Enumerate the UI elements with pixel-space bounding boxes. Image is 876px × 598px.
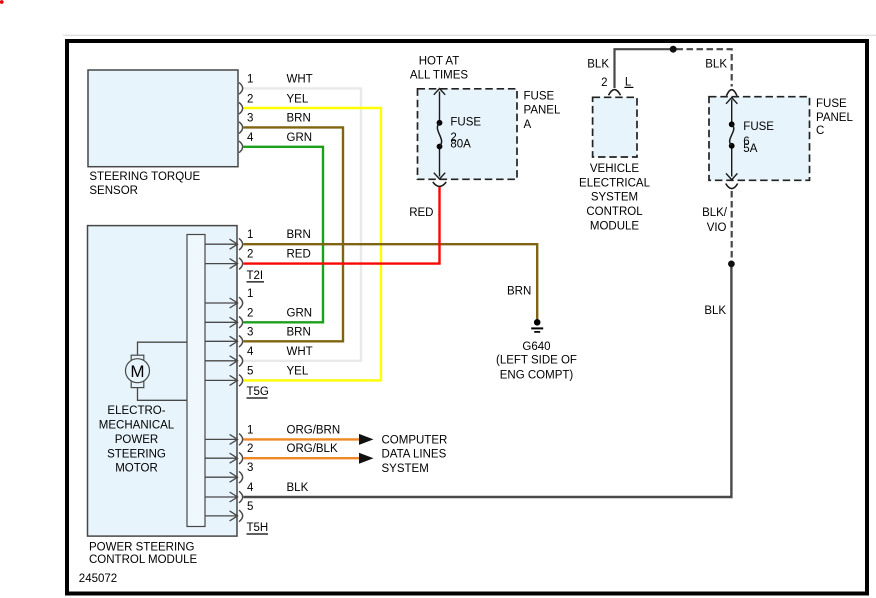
module pin 1 (nc) connector + arrow: [205, 288, 253, 309]
module pin 4 (BLK) connector + arrow: [205, 482, 309, 503]
svg-text:PANEL: PANEL: [816, 112, 853, 124]
fuse panel C top connector: [726, 90, 737, 96]
sensor pin 2 (YEL) connector: [239, 93, 309, 114]
svg-text:STEERING: STEERING: [107, 448, 166, 460]
svg-text:FUSE: FUSE: [450, 116, 481, 128]
data line arrow 2: [359, 453, 374, 464]
module pin 1 (ORG/BRN) connector + arrow: [205, 424, 340, 445]
module pin 2 (RED) connector + arrow: [205, 249, 311, 270]
computer data lines system label: [382, 435, 448, 475]
svg-text:RED: RED: [287, 249, 311, 261]
svg-text:MECHANICAL: MECHANICAL: [99, 420, 175, 432]
junction splice dot: [670, 46, 677, 53]
svg-text:(LEFT SIDE OF: (LEFT SIDE OF: [496, 354, 577, 366]
svg-text:3: 3: [247, 326, 253, 338]
module pin 3 (nc) connector + arrow: [205, 462, 253, 483]
svg-text:4: 4: [247, 482, 254, 494]
svg-text:1: 1: [247, 229, 253, 241]
module pin 2 (ORG/BLK) connector + arrow: [205, 443, 338, 464]
wire YEL sensor pin2 to module T5G pin5: [244, 108, 382, 380]
svg-text:HOT AT: HOT AT: [419, 56, 459, 68]
svg-text:WHT: WHT: [287, 73, 313, 85]
svg-text:MODULE: MODULE: [590, 220, 640, 232]
svg-text:BRN: BRN: [287, 113, 311, 125]
fuse 2 80A symbol: [434, 89, 482, 180]
svg-text:T5G: T5G: [247, 386, 269, 398]
connector label T5H: [247, 522, 269, 534]
power steering control module box: [88, 226, 238, 566]
fuse panel A bottom connector: [433, 182, 446, 186]
svg-text:YEL: YEL: [287, 93, 309, 105]
vehicle module pin L: [624, 77, 633, 89]
svg-text:5: 5: [247, 365, 253, 377]
svg-text:2: 2: [247, 443, 253, 455]
module pin 4 (WHT) connector + arrow: [205, 346, 313, 367]
svg-text:CONTROL MODULE: CONTROL MODULE: [89, 554, 198, 566]
svg-text:STEERING TORQUE: STEERING TORQUE: [89, 171, 200, 183]
svg-text:A: A: [524, 119, 532, 131]
svg-text:4: 4: [247, 346, 254, 358]
fuse 6 5A symbol: [726, 98, 774, 180]
svg-text:2: 2: [247, 249, 253, 261]
wire BLK vehicle module to junction: [615, 49, 673, 88]
svg-text:T5H: T5H: [247, 522, 269, 534]
svg-text:G640: G640: [522, 341, 550, 353]
svg-text:ELECTRO-: ELECTRO-: [107, 405, 165, 417]
wire BRN sensor pin3 to module T5G pin3: [244, 127, 344, 341]
fuse panel C box: [709, 97, 810, 181]
svg-text:245072: 245072: [79, 573, 117, 585]
svg-text:BLK: BLK: [587, 59, 609, 71]
svg-text:ALL TIMES: ALL TIMES: [410, 70, 468, 82]
svg-text:BRN: BRN: [287, 326, 311, 338]
wire WHT sensor pin1 to module T5G pin4: [244, 88, 362, 360]
svg-text:BLK: BLK: [704, 305, 726, 317]
red corner mark: [0, 0, 4, 4]
svg-text:CONTROL: CONTROL: [586, 206, 643, 218]
fuse panel A box: [418, 89, 518, 180]
sensor pin 3 (BRN) connector: [239, 113, 311, 134]
BLK/VIO wire label: [702, 207, 728, 234]
svg-text:M: M: [130, 362, 144, 381]
svg-text:PANEL: PANEL: [524, 105, 561, 117]
svg-text:FUSE: FUSE: [524, 90, 555, 102]
svg-text:FUSE: FUSE: [816, 98, 847, 110]
svg-text:COMPUTER: COMPUTER: [382, 435, 448, 447]
svg-text:2: 2: [247, 93, 253, 105]
module pin 1 (BRN) connector + arrow: [205, 229, 311, 250]
svg-text:VIO: VIO: [707, 222, 727, 234]
steering torque sensor: [88, 70, 238, 197]
svg-text:BRN: BRN: [287, 229, 311, 241]
svg-text:5: 5: [247, 501, 253, 513]
svg-text:YEL: YEL: [287, 365, 309, 377]
sensor pin 4 (GRN) connector: [239, 132, 312, 153]
svg-text:ORG/BLK: ORG/BLK: [287, 443, 338, 455]
electro-mechanical power steering motor M: [126, 342, 188, 400]
svg-text:2: 2: [601, 77, 607, 89]
svg-text:T2I: T2I: [247, 270, 264, 282]
svg-text:ENG COMPT): ENG COMPT): [500, 369, 574, 381]
module pin 2 (GRN) connector + arrow: [205, 307, 312, 328]
svg-text:SENSOR: SENSOR: [89, 185, 138, 197]
svg-text:GRN: GRN: [287, 307, 313, 319]
svg-text:BLK: BLK: [705, 59, 727, 71]
svg-text:FUSE: FUSE: [743, 121, 774, 133]
ground G640: [496, 319, 577, 381]
svg-text:SYSTEM: SYSTEM: [591, 192, 638, 204]
sensor pin 1 (WHT) connector: [239, 73, 313, 94]
svg-text:DATA LINES: DATA LINES: [382, 449, 447, 461]
wire RED fuse panel A to module T2I pin2: [244, 187, 440, 264]
svg-text:80A: 80A: [450, 139, 471, 151]
svg-text:BRN: BRN: [507, 285, 531, 297]
wire ORG/BLK module T5H pin2 to data lines: [244, 457, 360, 459]
svg-text:5A: 5A: [743, 143, 757, 155]
splice dot below fuse panel C: [728, 261, 735, 268]
fuse panel C bottom connector: [726, 184, 738, 189]
module internal connector bar: [187, 235, 205, 527]
svg-text:4: 4: [247, 132, 254, 144]
dashed BLK wire junction to fuse panel C: [677, 49, 732, 86]
svg-text:WHT: WHT: [287, 346, 313, 358]
svg-text:BLK: BLK: [287, 482, 309, 494]
fuse panel C label: [816, 98, 853, 137]
wire BLK module T5H pin4 to splice below fuse panel C: [244, 266, 732, 497]
svg-text:GRN: GRN: [287, 132, 313, 144]
svg-text:1: 1: [247, 424, 253, 436]
svg-text:VEHICLE: VEHICLE: [590, 163, 640, 175]
svg-text:1: 1: [247, 73, 253, 85]
hot at all times label: [410, 56, 468, 82]
wire BRN module T2I pin1 to ground G640: [244, 244, 538, 319]
svg-text:RED: RED: [409, 207, 433, 219]
dashed BLK/VIO wire fuse panel C to splice: [731, 191, 733, 261]
data line arrow 1: [359, 434, 374, 445]
svg-text:ELECTRICAL: ELECTRICAL: [579, 177, 651, 189]
module pin 5 (YEL) connector + arrow: [205, 365, 309, 386]
svg-text:3: 3: [247, 113, 253, 125]
svg-text:1: 1: [247, 288, 253, 300]
vehicle module top connector: [609, 90, 621, 96]
svg-text:POWER: POWER: [115, 434, 158, 446]
svg-text:C: C: [816, 125, 824, 137]
svg-text:POWER STEERING: POWER STEERING: [89, 541, 194, 553]
vehicle module label: [579, 163, 651, 232]
connector label T2I: [247, 270, 265, 282]
svg-text:MOTOR: MOTOR: [115, 463, 158, 475]
fuse panel A label: [524, 90, 561, 131]
wire GRN sensor pin4 to module T5G pin2: [244, 147, 324, 322]
svg-text:2: 2: [247, 307, 253, 319]
svg-text:BLK/: BLK/: [702, 207, 728, 219]
module pin 3 (BRN) connector + arrow: [205, 326, 311, 347]
svg-text:3: 3: [247, 462, 253, 474]
connector label T5G: [247, 386, 269, 398]
svg-text:ORG/BRN: ORG/BRN: [287, 424, 341, 436]
vehicle electrical system control module box: [593, 97, 637, 157]
faint page rule: [63, 34, 876, 36]
motor label: [99, 405, 175, 475]
module pin 5 (nc) connector + arrow: [205, 501, 253, 522]
svg-text:SYSTEM: SYSTEM: [382, 463, 429, 475]
wire ORG/BRN module T5H pin1 to data lines: [244, 438, 360, 440]
